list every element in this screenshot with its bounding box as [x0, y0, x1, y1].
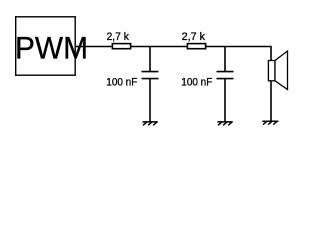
wire speaker to ground: [270, 81, 272, 121]
PWM source box U1: [16, 17, 75, 75]
capacitor C1 top plate: [142, 71, 159, 73]
capacitor C1 bottom plate: [142, 78, 159, 80]
capacitor C2 top plate: [217, 71, 234, 73]
resistor R1: [112, 44, 130, 49]
wire PWM output to R1: [75, 46, 113, 48]
svg-text:2,7 k: 2,7 k: [107, 31, 130, 43]
wire C1 to ground: [149, 79, 151, 122]
ground GND2: [218, 122, 232, 125]
wire R2 to node B to speaker corner: [206, 47, 271, 61]
ground GND1: [143, 122, 157, 125]
ground GND3: [263, 121, 278, 124]
resistor R2: [187, 44, 205, 49]
svg-text:100 nF: 100 nF: [181, 77, 212, 89]
svg-text:100 nF: 100 nF: [106, 77, 137, 89]
svg-text:PWM: PWM: [15, 30, 88, 66]
wire node B down to C2: [224, 47, 226, 72]
svg-text:2,7 k: 2,7 k: [182, 31, 206, 43]
wire node A down to C1: [149, 47, 151, 72]
speaker LS1 cone: [275, 51, 288, 90]
wire R1 to R2 through node A: [131, 46, 188, 48]
wire C2 to ground: [224, 79, 226, 122]
speaker LS1 driver rectangle: [268, 61, 275, 81]
capacitor C2 bottom plate: [217, 78, 234, 80]
